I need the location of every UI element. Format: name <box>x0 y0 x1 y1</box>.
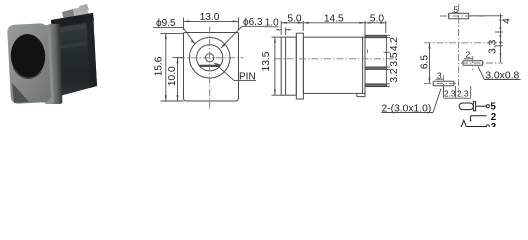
svg-text:10.0: 10.0 <box>167 66 178 86</box>
svg-text:13.0: 13.0 <box>200 12 220 23</box>
svg-text:6.5: 6.5 <box>420 55 431 69</box>
svg-text:15.6: 15.6 <box>154 56 165 76</box>
svg-text:3.3: 3.3 <box>487 39 498 53</box>
svg-text:4.2: 4.2 <box>389 37 400 51</box>
svg-text:2: 2 <box>491 112 497 123</box>
svg-text:4: 4 <box>502 18 513 24</box>
svg-text:3.5: 3.5 <box>389 52 400 66</box>
svg-text:13.5: 13.5 <box>261 51 272 71</box>
svg-text:3: 3 <box>491 122 497 127</box>
svg-text:5.0: 5.0 <box>287 13 301 24</box>
svg-text:2.3: 2.3 <box>444 88 456 98</box>
svg-text:5.0: 5.0 <box>370 13 384 24</box>
svg-text:2: 2 <box>466 50 471 60</box>
svg-text:3.2: 3.2 <box>389 68 400 82</box>
svg-text:14.5: 14.5 <box>324 13 344 24</box>
svg-text:2.3: 2.3 <box>457 88 469 98</box>
